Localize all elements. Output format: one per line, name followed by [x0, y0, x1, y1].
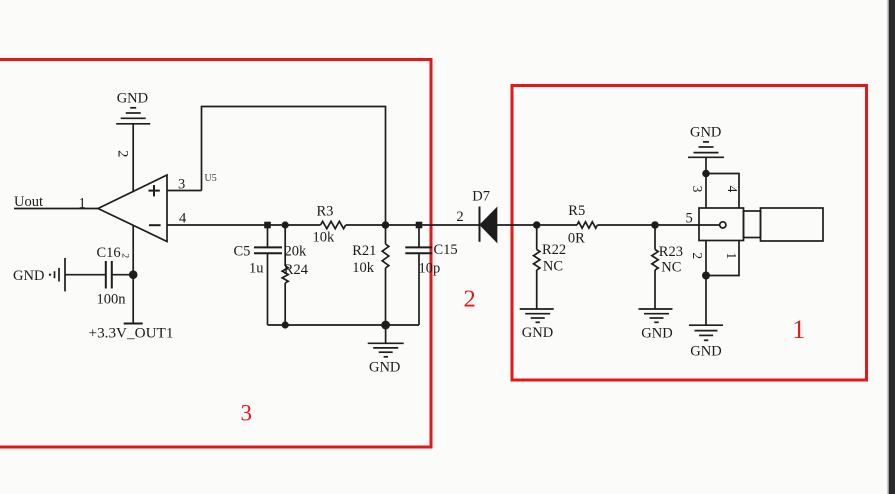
label 10k (R21): [352, 260, 375, 276]
node connector top: [702, 170, 710, 178]
label R22: [542, 242, 566, 258]
ground GND below connector: [689, 325, 723, 340]
label GND (sideways left): [13, 268, 44, 284]
label 10k (R3): [313, 229, 336, 245]
svg-text:+3.3V_OUT1: +3.3V_OUT1: [89, 325, 174, 342]
svg-text:10p: 10p: [419, 260, 441, 276]
wire pin3 lead: [167, 190, 202, 192]
svg-text:R21: R21: [352, 243, 376, 259]
svg-text:5: 5: [686, 210, 693, 226]
resistor R3 zigzag: [321, 221, 346, 228]
label R21: [352, 243, 376, 259]
resistor R22: [534, 225, 540, 309]
svg-text:2: 2: [690, 252, 705, 259]
label 10p: [419, 260, 441, 276]
wire C16 to node: [112, 274, 133, 276]
svg-text:GND: GND: [522, 325, 553, 341]
label Uout: [14, 194, 43, 210]
capacitor C15: [405, 225, 432, 325]
wire bottom rail: [268, 324, 420, 326]
label U5: [205, 173, 217, 184]
label 1u: [249, 261, 264, 277]
connector J1 body: [699, 208, 744, 241]
pin label 2 (diode): [456, 209, 463, 225]
label R5: [568, 203, 585, 219]
resistor R24: [282, 225, 288, 325]
label GND (below R21): [369, 360, 400, 376]
svg-text:2: 2: [114, 150, 130, 157]
svg-text:Uout: Uout: [14, 194, 43, 210]
svg-text:U5: U5: [205, 173, 217, 184]
label R23: [659, 244, 683, 260]
label 0R: [568, 230, 585, 246]
svg-text:20k: 20k: [285, 243, 308, 259]
label R24: [284, 262, 309, 278]
label R3: [317, 203, 334, 219]
capacitor C16 plates: [106, 261, 112, 289]
node R24 bottom: [282, 321, 289, 328]
wire R3 to diode: [346, 224, 480, 226]
label 100n: [97, 292, 127, 308]
label C5: [234, 243, 251, 259]
svg-text:C5: C5: [234, 243, 251, 259]
diode D7: [480, 207, 497, 242]
resistor R21: [382, 225, 389, 325]
svg-text:3: 3: [690, 186, 705, 193]
svg-text:1u: 1u: [249, 261, 264, 277]
wire pin2 vertical: [132, 124, 134, 192]
svg-text:GND: GND: [641, 326, 672, 342]
resistor R23: [652, 225, 658, 309]
node R24 top: [282, 221, 289, 228]
label GND (top-left): [117, 90, 148, 106]
red region box 1: [512, 86, 867, 381]
pin label 2 (op-amp, rotated): [114, 150, 130, 157]
svg-text:3: 3: [241, 400, 253, 425]
wire diode to R5: [497, 224, 578, 226]
svg-text:GND: GND: [690, 344, 721, 360]
red region box 3: [0, 60, 431, 448]
node C15 top: [416, 222, 423, 229]
capacitor C5: [254, 225, 282, 325]
pin label 2 (connector, rotated): [690, 252, 705, 259]
label D7: [472, 189, 490, 205]
svg-text:R24: R24: [284, 262, 309, 278]
wire pin1 loop bottom: [706, 241, 739, 276]
node R23 top: [651, 221, 659, 229]
connector mid piece: [744, 211, 761, 238]
svg-text:2: 2: [456, 209, 463, 225]
ground GND below R21: [368, 343, 404, 357]
pin label 1 (op-amp): [79, 196, 86, 212]
wire pin2 below box: [705, 241, 707, 276]
node R21/loop top: [382, 221, 390, 229]
svg-text:GND: GND: [13, 268, 44, 284]
svg-text:D7: D7: [472, 189, 490, 205]
pin label 4 (connector, rotated): [725, 186, 740, 193]
node R22 top: [533, 221, 541, 229]
wire GND stem mid: [385, 325, 387, 343]
pin label 1 (connector, rotated): [724, 252, 739, 259]
label GND (below R23): [641, 326, 672, 342]
svg-text:GND: GND: [690, 124, 721, 140]
connector outer piece: [761, 208, 824, 241]
svg-text:4: 4: [725, 186, 740, 193]
red label 1: [792, 315, 805, 344]
wire GND stem to node: [705, 157, 707, 173]
pin5 open circle: [720, 222, 726, 228]
label +3.3V_OUT1: [89, 325, 174, 342]
svg-text:1: 1: [792, 315, 805, 344]
svg-text:1: 1: [79, 196, 86, 212]
wire GND to C16: [65, 274, 106, 276]
pin label 3 (connector, rotated): [690, 186, 705, 193]
svg-text:C15: C15: [434, 242, 458, 258]
node GND rail junction: [381, 321, 390, 330]
svg-text:C16: C16: [97, 245, 121, 261]
svg-text:2: 2: [463, 286, 475, 313]
wire pin4 to R3: [167, 224, 321, 226]
node junction C16/+3.3V: [129, 270, 138, 279]
ground GND above connector (inverted): [688, 142, 724, 157]
pin label 5: [686, 210, 693, 226]
svg-text:R23: R23: [659, 244, 683, 260]
label C15: [434, 242, 458, 258]
svg-text:NC: NC: [661, 259, 681, 275]
wire stem to bottom GND: [705, 276, 707, 326]
label NC (R22): [543, 259, 563, 275]
label 20k: [285, 243, 308, 259]
node C5 top: [264, 222, 271, 229]
svg-text:GND: GND: [117, 90, 148, 106]
pin label 2 (C16, rotated small): [119, 253, 129, 258]
svg-text:NC: NC: [543, 259, 563, 275]
svg-text:4: 4: [179, 211, 187, 227]
pin label 3 (op-amp): [178, 176, 185, 192]
ground GND below R22: [520, 309, 554, 322]
svg-text:10k: 10k: [352, 260, 375, 276]
node connector bottom: [702, 272, 710, 280]
label GND (below R22): [522, 325, 553, 341]
power +3.3V_OUT1 bar: [124, 323, 143, 325]
svg-text:10k: 10k: [313, 229, 336, 245]
wire pin3 into box: [705, 174, 707, 209]
red label 3: [241, 400, 253, 425]
label C16: [97, 245, 121, 261]
svg-text:3: 3: [178, 176, 185, 192]
svg-text:R3: R3: [317, 203, 334, 219]
wire below op-amp to +3.3V: [132, 225, 134, 323]
red label 2: [463, 286, 475, 313]
label NC (R23): [661, 259, 681, 275]
pin label 4 (op-amp): [179, 211, 187, 227]
svg-text:0R: 0R: [568, 230, 585, 246]
svg-text:R22: R22: [542, 242, 566, 258]
ground GND below R23: [639, 309, 673, 322]
svg-text:100n: 100n: [97, 292, 127, 308]
label GND (below connector): [690, 344, 721, 360]
wire pin4 loop top: [706, 174, 739, 209]
ground GND sideways (left of C16): [49, 258, 65, 291]
svg-text:1: 1: [724, 252, 739, 259]
right dark scrollbar strip: [888, 0, 895, 494]
svg-text:R5: R5: [568, 203, 585, 219]
wire R5 to connector: [597, 224, 719, 226]
ground GND above op-amp (inverted): [116, 108, 150, 124]
svg-text:GND: GND: [369, 360, 400, 376]
op-amp U5 triangle: [98, 175, 167, 242]
wire Uout lead: [14, 208, 98, 210]
wire top feedback loop: [202, 107, 386, 226]
svg-text:2: 2: [119, 253, 129, 258]
label GND (above connector): [690, 124, 721, 140]
resistor R5 zigzag: [577, 222, 597, 228]
